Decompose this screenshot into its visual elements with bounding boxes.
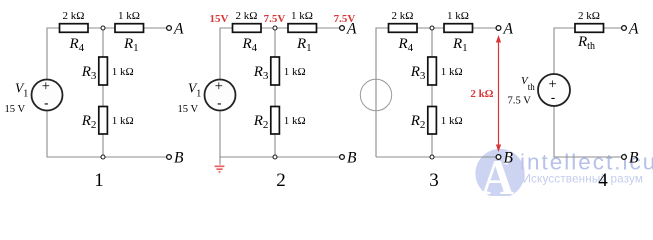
svg-text:15 V: 15 V (178, 104, 199, 115)
wire (47, 111, 167, 158)
svg-text:R3: R3 (410, 64, 426, 82)
svg-text:1: 1 (94, 170, 104, 191)
svg-text:1 kΩ: 1 kΩ (441, 115, 463, 127)
svg-text:3: 3 (429, 170, 439, 191)
svg-text:B: B (629, 150, 639, 167)
svg-text:+: + (42, 78, 50, 94)
wire (431, 134, 433, 158)
resistor R2 (81, 107, 134, 135)
svg-text:Rth: Rth (577, 34, 595, 52)
terminal B (340, 150, 357, 167)
wire (376, 28, 389, 157)
svg-text:R3: R3 (253, 64, 269, 82)
voltage source Vth (508, 74, 571, 107)
wire (102, 28, 104, 57)
svg-text:Искусственный разум: Искусственный разум (523, 173, 644, 186)
resistor R1 (115, 10, 144, 54)
svg-text:2 kΩ: 2 kΩ (392, 10, 414, 22)
svg-text:2: 2 (276, 170, 286, 191)
wire (88, 27, 115, 29)
wire (102, 85, 104, 107)
wire (220, 28, 233, 80)
svg-text:Vth: Vth (521, 75, 535, 92)
svg-text:2 kΩ: 2 kΩ (578, 10, 600, 22)
svg-text:R2: R2 (81, 113, 97, 131)
ground (215, 157, 225, 172)
voltage source V1 (5, 78, 63, 115)
wire (274, 85, 276, 107)
node (430, 155, 434, 159)
resistor R2 (410, 107, 463, 135)
svg-text:R1: R1 (452, 36, 468, 54)
resistance arrow 2 kOhm (470, 35, 501, 152)
resistor R2 (253, 107, 306, 135)
wire (317, 27, 340, 29)
wire (47, 28, 60, 80)
wire (102, 134, 104, 158)
svg-text:1 kΩ: 1 kΩ (112, 66, 134, 78)
svg-text:R1: R1 (296, 36, 312, 54)
svg-text:A: A (628, 21, 639, 38)
resistor R3 (81, 57, 134, 85)
svg-text:1 kΩ: 1 kΩ (447, 10, 469, 22)
svg-text:-: - (551, 90, 555, 105)
node (273, 155, 277, 159)
resistor R3 (410, 57, 463, 85)
terminal A (496, 21, 513, 38)
svg-text:A: A (173, 21, 184, 38)
terminal B (496, 150, 513, 167)
resistor R4 (233, 10, 262, 54)
svg-text:B: B (504, 150, 514, 167)
wire (261, 27, 288, 29)
resistor R4 (389, 10, 418, 54)
svg-text:B: B (174, 150, 184, 167)
wire (473, 27, 496, 29)
zeroed source (short) (360, 79, 391, 110)
resistor R1 (444, 10, 473, 54)
wire (274, 28, 276, 57)
svg-text:1 kΩ: 1 kΩ (118, 10, 140, 22)
svg-text:15 V: 15 V (5, 104, 26, 115)
svg-text:R4: R4 (242, 36, 258, 54)
node (101, 155, 105, 159)
svg-text:7.5 V: 7.5 V (508, 96, 532, 107)
svg-text:R2: R2 (253, 113, 269, 131)
terminal A (167, 21, 184, 38)
svg-text:A: A (503, 21, 514, 38)
wire (376, 156, 496, 158)
node (430, 26, 434, 30)
node (101, 26, 105, 30)
svg-text:A: A (346, 21, 357, 38)
wire (554, 106, 622, 157)
resistor Rth (575, 10, 604, 52)
terminal B (622, 150, 639, 167)
svg-text:R4: R4 (69, 36, 85, 54)
wire (431, 28, 433, 57)
watermark logo circle (475, 149, 524, 205)
svg-text:B: B (347, 150, 357, 167)
svg-text:1 kΩ: 1 kΩ (291, 10, 313, 22)
terminal A (340, 21, 357, 38)
svg-text:1 kΩ: 1 kΩ (112, 115, 134, 127)
terminal A (622, 21, 639, 38)
svg-text:R4: R4 (398, 36, 414, 54)
wire (417, 27, 444, 29)
svg-text:+: + (215, 78, 223, 94)
svg-text:R2: R2 (410, 113, 426, 131)
terminal B (167, 150, 184, 167)
voltage source V1 (178, 78, 236, 115)
wire (144, 27, 167, 29)
wire (431, 85, 433, 107)
wire (274, 134, 276, 158)
resistor R1 (288, 10, 317, 54)
wire (554, 28, 575, 74)
svg-text:R3: R3 (81, 64, 97, 82)
svg-text:1 kΩ: 1 kΩ (284, 66, 306, 78)
svg-text:7.5V: 7.5V (264, 13, 286, 25)
svg-text:-: - (44, 95, 48, 110)
svg-text:4: 4 (598, 170, 608, 191)
svg-text:V1: V1 (15, 81, 28, 100)
svg-text:-: - (217, 95, 221, 110)
svg-text:15V: 15V (210, 13, 229, 25)
resistor R3 (253, 57, 306, 85)
wire (220, 111, 340, 158)
svg-text:2 kΩ: 2 kΩ (63, 10, 85, 22)
svg-text:V1: V1 (188, 81, 201, 100)
svg-text:2 kΩ: 2 kΩ (236, 10, 258, 22)
node (273, 26, 277, 30)
resistor R4 (60, 10, 89, 54)
svg-text:R1: R1 (123, 36, 139, 54)
svg-text:1 kΩ: 1 kΩ (284, 115, 306, 127)
svg-text:2 kΩ: 2 kΩ (470, 88, 493, 100)
wire (604, 27, 622, 29)
svg-text:1 kΩ: 1 kΩ (441, 66, 463, 78)
